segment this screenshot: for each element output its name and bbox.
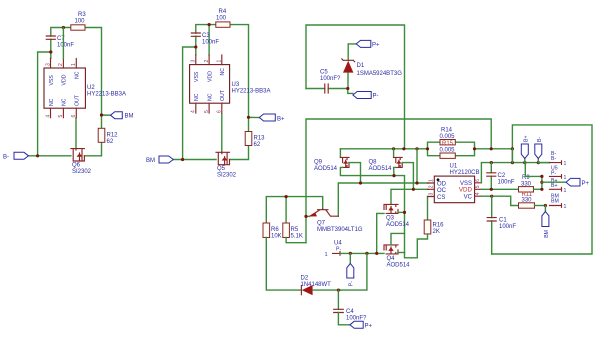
capacitor C7 <box>46 36 74 49</box>
wire R6 bottom to D2 row <box>266 238 301 291</box>
svg-text:1SMA5924BT3G: 1SMA5924BT3G <box>357 71 403 77</box>
svg-text:VC: VC <box>464 195 473 201</box>
svg-text:1: 1 <box>325 252 328 258</box>
wire R6-R5 top rail to Q7 base <box>266 197 322 223</box>
pin U4 <box>325 241 343 258</box>
svg-text:MMBT3904LT1G: MMBT3904LT1G <box>317 227 363 233</box>
svg-text:R3: R3 <box>78 12 86 18</box>
svg-text:Q3: Q3 <box>386 216 395 222</box>
wire R16 bottom return to source node <box>405 234 428 258</box>
pin row4 (BM) <box>550 204 567 210</box>
svg-text:100: 100 <box>216 15 227 21</box>
wire VDD row to R9 <box>481 188 518 190</box>
svg-text:Q7: Q7 <box>317 221 326 227</box>
svg-text:100nF: 100nF <box>498 180 515 186</box>
svg-text:P-: P- <box>336 247 341 253</box>
wire D1 anode to junction <box>347 73 349 89</box>
svg-text:B+: B+ <box>277 117 285 123</box>
capacitor C4 <box>334 309 367 322</box>
svg-text:2K: 2K <box>433 229 440 235</box>
svg-text:BM: BM <box>544 230 550 238</box>
svg-text:R14: R14 <box>441 128 453 134</box>
svg-text:NC: NC <box>220 68 226 76</box>
connector flag BM (block1) <box>111 112 134 120</box>
svg-text:VSS: VSS <box>194 71 200 82</box>
wire U4 row down to D2 row <box>341 253 367 290</box>
transistor Q4 AOD514 <box>384 245 410 269</box>
connector flag P- (top box) <box>353 92 379 100</box>
svg-text:B+: B+ <box>523 136 529 143</box>
svg-text:4: 4 <box>45 115 51 118</box>
wire left rail B- <box>38 52 51 156</box>
svg-text:1: 1 <box>71 63 77 66</box>
svg-text:C3: C3 <box>202 33 210 39</box>
resistor R15 0.005 with bracket <box>428 148 475 159</box>
wire U3 pin6 to Q5 drain <box>221 114 223 153</box>
connector flag B- <box>3 152 29 160</box>
junction dots P+ tie column <box>540 175 543 178</box>
wire R5 riser <box>285 197 287 223</box>
svg-text:5: 5 <box>204 110 210 113</box>
junction dot OC wire <box>412 188 415 191</box>
svg-text:R5: R5 <box>291 227 299 233</box>
junction dot source wire <box>392 174 395 177</box>
resistor R11 330 <box>519 192 546 208</box>
svg-text:C5: C5 <box>320 70 328 76</box>
svg-text:100nF: 100nF <box>57 43 74 49</box>
junction C2 bottom on VDD wire <box>490 188 493 191</box>
svg-text:B-: B- <box>3 154 9 160</box>
svg-text:P-: P- <box>373 94 379 100</box>
svg-text:P+: P+ <box>372 43 380 49</box>
wire top rail block2 <box>196 25 249 118</box>
svg-text:R13: R13 <box>254 136 266 142</box>
svg-text:1: 1 <box>564 204 567 210</box>
svg-text:1N4148WT: 1N4148WT <box>301 282 332 288</box>
svg-text:AOD514: AOD514 <box>314 166 338 172</box>
svg-text:HY2120CB: HY2120CB <box>450 170 480 176</box>
capacitor C1 <box>487 196 516 254</box>
junction dots block1 <box>62 26 65 29</box>
svg-text:HY2213-BB3A: HY2213-BB3A <box>87 92 126 98</box>
wire VC row to R11 <box>481 196 518 205</box>
diode D2 1N4148WT <box>301 276 341 296</box>
connector flag BM (block2) <box>146 156 173 164</box>
connector flag P- (vertical) <box>347 264 355 287</box>
wire U2 pin6 to Q6 drain <box>75 118 77 149</box>
svg-text:100nF: 100nF <box>499 224 516 230</box>
wire source node vertical <box>394 176 405 253</box>
svg-text:6: 6 <box>217 110 223 113</box>
wire P- stub down <box>349 253 351 263</box>
svg-text:D2: D2 <box>301 276 309 282</box>
svg-text:Q6: Q6 <box>72 163 81 169</box>
svg-text:C4: C4 <box>346 309 354 315</box>
svg-text:C1: C1 <box>499 218 507 224</box>
svg-text:P+: P+ <box>365 323 373 329</box>
svg-text:330: 330 <box>521 182 532 188</box>
svg-text:100nF?: 100nF? <box>346 316 367 322</box>
svg-text:6: 6 <box>71 115 77 118</box>
pin U5 (B-) <box>538 151 566 176</box>
svg-text:1: 1 <box>217 60 223 63</box>
svg-text:1: 1 <box>564 161 567 167</box>
IC U3 HY2213-BB3A <box>190 55 271 113</box>
svg-text:0.005: 0.005 <box>440 148 456 154</box>
svg-text:3: 3 <box>191 60 197 63</box>
svg-text:VSS: VSS <box>49 75 55 86</box>
svg-text:BM: BM <box>551 199 559 205</box>
svg-text:1: 1 <box>429 179 435 182</box>
svg-text:2: 2 <box>204 60 210 63</box>
junction dot Q7 emitter on box edge <box>304 215 307 218</box>
svg-text:62: 62 <box>254 142 261 148</box>
wire B+ riser to R9 (inner box left edge) <box>511 149 513 163</box>
svg-text:P-: P- <box>348 281 354 286</box>
svg-text:1: 1 <box>564 188 567 194</box>
svg-text:SI2302: SI2302 <box>217 173 237 179</box>
svg-text:P-: P- <box>551 170 556 176</box>
wire rail to OD <box>416 149 418 183</box>
svg-text:Q9: Q9 <box>314 160 323 166</box>
wire D1 branch to P+ <box>348 44 356 60</box>
junction Q3 source node <box>403 211 406 214</box>
resistor R12 <box>98 128 118 145</box>
svg-text:CS: CS <box>437 195 445 201</box>
wire R13 top to B+ junction <box>249 117 260 131</box>
wire top rail block1 <box>51 28 102 116</box>
svg-text:R12: R12 <box>107 133 119 139</box>
connector flag B- (vertical) <box>535 137 543 163</box>
svg-text:4: 4 <box>191 110 197 113</box>
transistor Q9 AOD514 <box>314 149 394 183</box>
svg-text:BM: BM <box>146 158 155 164</box>
wire Q4 source to node <box>398 252 405 254</box>
transistor Q3 AOD514 <box>384 204 410 228</box>
wire BM row to Q5 gate <box>173 159 216 161</box>
svg-text:OD: OD <box>437 181 447 187</box>
resistor R13 <box>245 132 265 149</box>
svg-text:Q8: Q8 <box>369 160 378 166</box>
junction BM pin row <box>544 204 547 207</box>
connector flag P+ (top box) <box>356 40 380 48</box>
wire OC net <box>391 189 428 203</box>
diode D1 1SMA5924BT3G (zener) <box>342 59 402 77</box>
svg-text:U2: U2 <box>87 85 95 91</box>
wire Q4 drain jog to source node <box>391 233 405 245</box>
svg-text:4: 4 <box>475 192 481 195</box>
connector flag B+ (vertical) <box>521 136 529 163</box>
resistor R6 10K <box>263 223 282 240</box>
wire C5 row <box>306 89 353 94</box>
svg-text:VDD: VDD <box>62 74 68 85</box>
svg-text:2: 2 <box>58 63 64 66</box>
svg-text:OUT: OUT <box>75 94 81 106</box>
connector flag BM (vertical) <box>542 212 550 238</box>
svg-text:R4: R4 <box>219 9 227 15</box>
svg-text:B-: B- <box>537 137 543 142</box>
svg-text:6: 6 <box>475 179 481 182</box>
svg-text:100: 100 <box>75 18 86 24</box>
svg-text:2: 2 <box>429 185 435 188</box>
resistor R16 2K <box>424 220 444 235</box>
svg-text:R16: R16 <box>433 223 445 229</box>
wire B- row to Q6 gate <box>29 155 71 157</box>
svg-text:Q4: Q4 <box>387 256 396 262</box>
junction dot D1 anode <box>346 87 349 90</box>
wire C4 to P+ flag <box>338 313 350 325</box>
transistor Q6 SI2302 <box>71 149 92 175</box>
svg-text:AOD514: AOD514 <box>369 166 393 172</box>
svg-text:0.005: 0.005 <box>440 134 456 140</box>
wire inner box right section <box>492 125 592 254</box>
svg-text:U3: U3 <box>232 82 240 88</box>
junction dots OD wire <box>359 181 362 184</box>
svg-text:HY2213-BB3A: HY2213-BB3A <box>232 89 271 95</box>
junction dots wire A <box>490 161 493 164</box>
svg-text:OC: OC <box>437 188 447 194</box>
wire Q5 source to R13 <box>230 146 249 160</box>
svg-text:NC: NC <box>49 98 55 106</box>
svg-text:SI2302: SI2302 <box>72 169 92 175</box>
svg-text:3: 3 <box>429 193 435 196</box>
wire BM stub down <box>544 206 546 212</box>
svg-text:AOD514: AOD514 <box>386 222 410 228</box>
wire big box top edge and left edge <box>306 119 491 243</box>
svg-text:330: 330 <box>522 197 533 203</box>
pin row2 <box>550 175 567 190</box>
svg-text:1: 1 <box>564 175 567 181</box>
resistor R14 0.005 with bracket <box>428 128 475 149</box>
transistor Q5 SI2302 <box>216 152 237 178</box>
svg-text:NC: NC <box>75 71 81 79</box>
wire Q6 source to R12 <box>85 142 102 156</box>
wire R12 top to BM junction <box>102 115 111 128</box>
svg-text:VDD: VDD <box>207 71 213 82</box>
svg-text:100nF: 100nF <box>202 40 219 46</box>
svg-text:NC: NC <box>62 98 68 106</box>
capacitor C3 <box>191 33 219 46</box>
transistor Q7 MMBT3904LT1G <box>306 209 363 233</box>
svg-text:OUT: OUT <box>220 89 226 101</box>
resistor R4 <box>216 9 230 27</box>
resistor R3 <box>71 12 87 30</box>
svg-text:U1: U1 <box>450 164 458 170</box>
connector flag B+ (block2) <box>259 114 285 123</box>
resistor R9 330 <box>519 175 542 192</box>
junction dot R5 top <box>285 195 288 198</box>
wire VDD pin 2 riser block2 <box>208 25 210 55</box>
wire vertical tie rows 2-3 <box>541 176 543 189</box>
svg-text:R15: R15 <box>442 141 454 147</box>
svg-text:P+: P+ <box>582 181 590 187</box>
svg-text:R6: R6 <box>271 227 279 233</box>
svg-text:NC: NC <box>194 93 200 101</box>
wire Q3 source to node <box>398 211 405 213</box>
svg-text:AOD514: AOD514 <box>387 263 411 269</box>
svg-text:B+: B+ <box>551 183 558 189</box>
junction dots block2 <box>208 23 211 26</box>
wire Q3 gate <box>377 213 384 253</box>
transistor Q8 AOD514 <box>369 149 414 190</box>
wire P+ branch <box>542 181 566 183</box>
capacitor C2 <box>487 163 515 190</box>
wire U4 row to Q4 gate <box>340 252 384 254</box>
svg-text:Q5: Q5 <box>217 166 226 172</box>
svg-text:VDD: VDD <box>459 187 473 194</box>
junction dot D2 row <box>337 289 340 292</box>
connector flag P+ (right) <box>566 178 590 187</box>
connector flag P+ (bottom) <box>350 321 373 329</box>
svg-text:100nF?: 100nF? <box>320 76 341 82</box>
pin row3 <box>550 188 567 205</box>
wire VDD pin 2 riser block1 <box>62 28 64 59</box>
svg-text:5: 5 <box>58 115 64 118</box>
wire C7 bottom to VSS pin <box>50 39 52 58</box>
junction dots rail <box>392 147 395 150</box>
svg-text:BM: BM <box>125 114 134 120</box>
wire VSS pin up and right to pin column <box>481 163 549 183</box>
svg-text:10K: 10K <box>271 234 282 240</box>
junction dots U4 row <box>349 252 352 255</box>
wire OD net <box>338 183 428 216</box>
wire CS net U1 pin3 to R16 <box>427 197 429 221</box>
IC U2 HY2213-BB3A <box>44 59 126 118</box>
svg-text:5.1K: 5.1K <box>291 234 303 240</box>
svg-text:C2: C2 <box>498 173 506 179</box>
svg-text:D1: D1 <box>357 63 365 69</box>
junction C1 top on VC wire <box>490 195 493 198</box>
wire C3 bottom to VSS pin <box>195 36 197 55</box>
wire left rail BM block2 <box>183 47 196 160</box>
resistor R5 5.1K <box>283 223 303 240</box>
svg-text:B-: B- <box>551 156 556 162</box>
svg-text:5: 5 <box>475 185 481 188</box>
svg-text:NC: NC <box>207 93 213 101</box>
wire top box frame <box>306 25 405 149</box>
wire C4 riser <box>337 290 339 309</box>
wire R5 bottom to left rail <box>286 238 306 243</box>
svg-text:62: 62 <box>107 139 114 145</box>
wire B+ branch down to pin row2 <box>525 163 542 177</box>
svg-text:3: 3 <box>45 63 51 66</box>
capacitor C5 <box>320 70 341 94</box>
wire main rail <box>340 148 512 150</box>
